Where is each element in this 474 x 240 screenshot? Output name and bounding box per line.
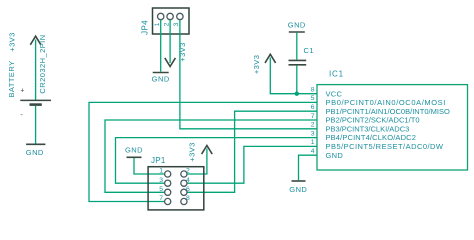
wire: [116, 138, 318, 184]
svg-text:3: 3: [159, 177, 163, 184]
net label +3V3 (JP4 pin2): [165, 42, 187, 66]
pin 2 PB3: [311, 122, 410, 134]
wire: [296, 33, 298, 60]
pin 4 (JP1): [181, 177, 190, 186]
pin 6 PB1: [311, 104, 450, 116]
wire: [134, 158, 165, 174]
wire: [89, 102, 317, 201]
wire: [35, 40, 37, 101]
wire: [169, 20, 171, 63]
svg-text:6: 6: [186, 186, 190, 193]
pin 7 PB2: [311, 113, 420, 125]
svg-text:8: 8: [186, 195, 190, 202]
svg-text:5: 5: [311, 95, 315, 102]
pin 3 PB4: [311, 130, 416, 142]
svg-text:6: 6: [311, 104, 315, 111]
svg-text:7: 7: [159, 195, 163, 202]
wire: [299, 155, 318, 180]
svg-text:1: 1: [159, 168, 163, 175]
ground (JP1 pin1): [125, 146, 143, 158]
svg-text:PB0/PCINT0/AIN0/OC0A/MOSI: PB0/PCINT0/AIN0/OC0A/MOSI: [326, 98, 446, 107]
pin 5 PB0: [311, 95, 446, 107]
svg-text:VCC: VCC: [326, 89, 343, 98]
connector JP1: [148, 156, 204, 210]
ground (battery): [26, 144, 46, 157]
net label +3V3 (battery): [7, 32, 41, 52]
pin 1 (JP1): [159, 168, 171, 177]
svg-text:+: +: [20, 88, 24, 95]
svg-text:2: 2: [186, 168, 190, 175]
svg-text:IC1: IC1: [329, 70, 344, 79]
svg-text:PB1/PCINT1/AIN1/OC0B/INT0/MISO: PB1/PCINT1/AIN1/OC0B/INT0/MISO: [326, 107, 451, 116]
pin 2 (JP4): [163, 13, 173, 26]
svg-text:PB5/PCINT5/RESET/ADC0/DW: PB5/PCINT5/RESET/ADC0/DW: [326, 142, 444, 151]
svg-text:+3V3: +3V3: [7, 32, 16, 52]
pin 7 (JP1): [159, 195, 171, 204]
ground (above C1): [288, 21, 306, 33]
IC U1 ATtiny: [317, 70, 468, 171]
pin 8 VCC: [311, 87, 343, 99]
net label +3V3 (JP1 pin2): [187, 142, 212, 162]
pin 5 (JP1): [159, 186, 171, 195]
pin 3 (JP1): [159, 177, 171, 186]
connector JP4: [140, 8, 189, 35]
svg-text:+3V3: +3V3: [187, 142, 196, 162]
svg-text:1: 1: [154, 22, 161, 26]
wire: [180, 20, 317, 129]
pin 1 PB5: [311, 139, 444, 151]
svg-text:JP1: JP1: [151, 156, 166, 165]
svg-text:5: 5: [159, 186, 163, 193]
svg-text:1: 1: [311, 139, 315, 146]
battery BAT1: [7, 34, 51, 119]
ground (IC pin4): [289, 181, 307, 194]
svg-text:CR2032H_2PIN: CR2032H_2PIN: [38, 34, 47, 93]
pin 4 GND: [311, 148, 344, 160]
wire: [296, 66, 298, 94]
svg-text:3: 3: [173, 22, 180, 26]
pin 1 (JP4): [154, 13, 164, 26]
svg-text:GND: GND: [288, 21, 306, 30]
svg-text:GND: GND: [326, 151, 344, 160]
svg-text:2: 2: [163, 22, 170, 26]
net label +3V3 (VCC): [252, 54, 276, 74]
wire: [187, 111, 317, 192]
pin 3 (JP4): [173, 13, 183, 26]
svg-text:GND: GND: [289, 185, 307, 194]
svg-text:7: 7: [311, 113, 315, 120]
pin 6 (JP1): [181, 186, 190, 195]
svg-text:PB3/PCINT3/CLKI/ADC3: PB3/PCINT3/CLKI/ADC3: [326, 124, 410, 133]
wire: [160, 20, 162, 72]
ground (JP4 pin1): [152, 73, 170, 84]
wire: [187, 149, 207, 175]
svg-text:4: 4: [311, 148, 315, 155]
pin 2 (JP1): [181, 168, 190, 177]
svg-text:GND: GND: [26, 148, 44, 157]
wire: [105, 120, 317, 192]
svg-text:3: 3: [311, 130, 315, 137]
svg-text:PB4/PCINT4/CLKO/ADC2: PB4/PCINT4/CLKO/ADC2: [326, 133, 417, 142]
svg-text:PB2/PCINT2/SCK/ADC1/T0: PB2/PCINT2/SCK/ADC1/T0: [326, 116, 420, 125]
svg-text:+3V3: +3V3: [252, 55, 261, 75]
svg-text:GND: GND: [125, 146, 143, 155]
svg-text:BATTERY: BATTERY: [7, 60, 16, 97]
svg-text:8: 8: [311, 87, 315, 94]
svg-text:4: 4: [186, 177, 190, 184]
svg-text:2: 2: [311, 122, 315, 129]
svg-text:C1: C1: [304, 46, 315, 55]
wire: [35, 106, 37, 144]
capacitor C1: [289, 46, 315, 65]
junction: [295, 92, 299, 96]
wire: [270, 58, 317, 94]
pin 8 (JP1): [181, 195, 190, 204]
svg-text:JP4: JP4: [140, 20, 149, 35]
svg-text:GND: GND: [152, 75, 170, 84]
wire: [187, 146, 317, 183]
